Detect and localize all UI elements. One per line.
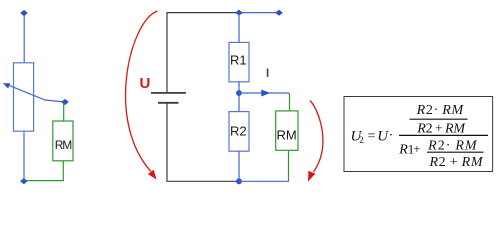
svg-text:=: = xyxy=(368,129,376,144)
svg-text:RM: RM xyxy=(277,127,297,142)
svg-text:R1: R1 xyxy=(230,52,247,67)
svg-text:U: U xyxy=(140,75,151,92)
svg-text:+: + xyxy=(413,141,420,156)
svg-text:R2· RM: R2· RM xyxy=(416,103,465,118)
svg-text:·: · xyxy=(389,129,394,144)
svg-text:RM: RM xyxy=(55,138,73,152)
svg-text:R2 + RM: R2 + RM xyxy=(429,155,484,170)
svg-text:2: 2 xyxy=(359,135,364,145)
svg-text:R2: R2 xyxy=(230,124,247,139)
svg-text:U: U xyxy=(377,128,389,144)
svg-text:R: R xyxy=(398,143,408,158)
svg-text:R2 + RM: R2 + RM xyxy=(416,121,466,136)
svg-text:R2· RM: R2· RM xyxy=(427,138,478,153)
